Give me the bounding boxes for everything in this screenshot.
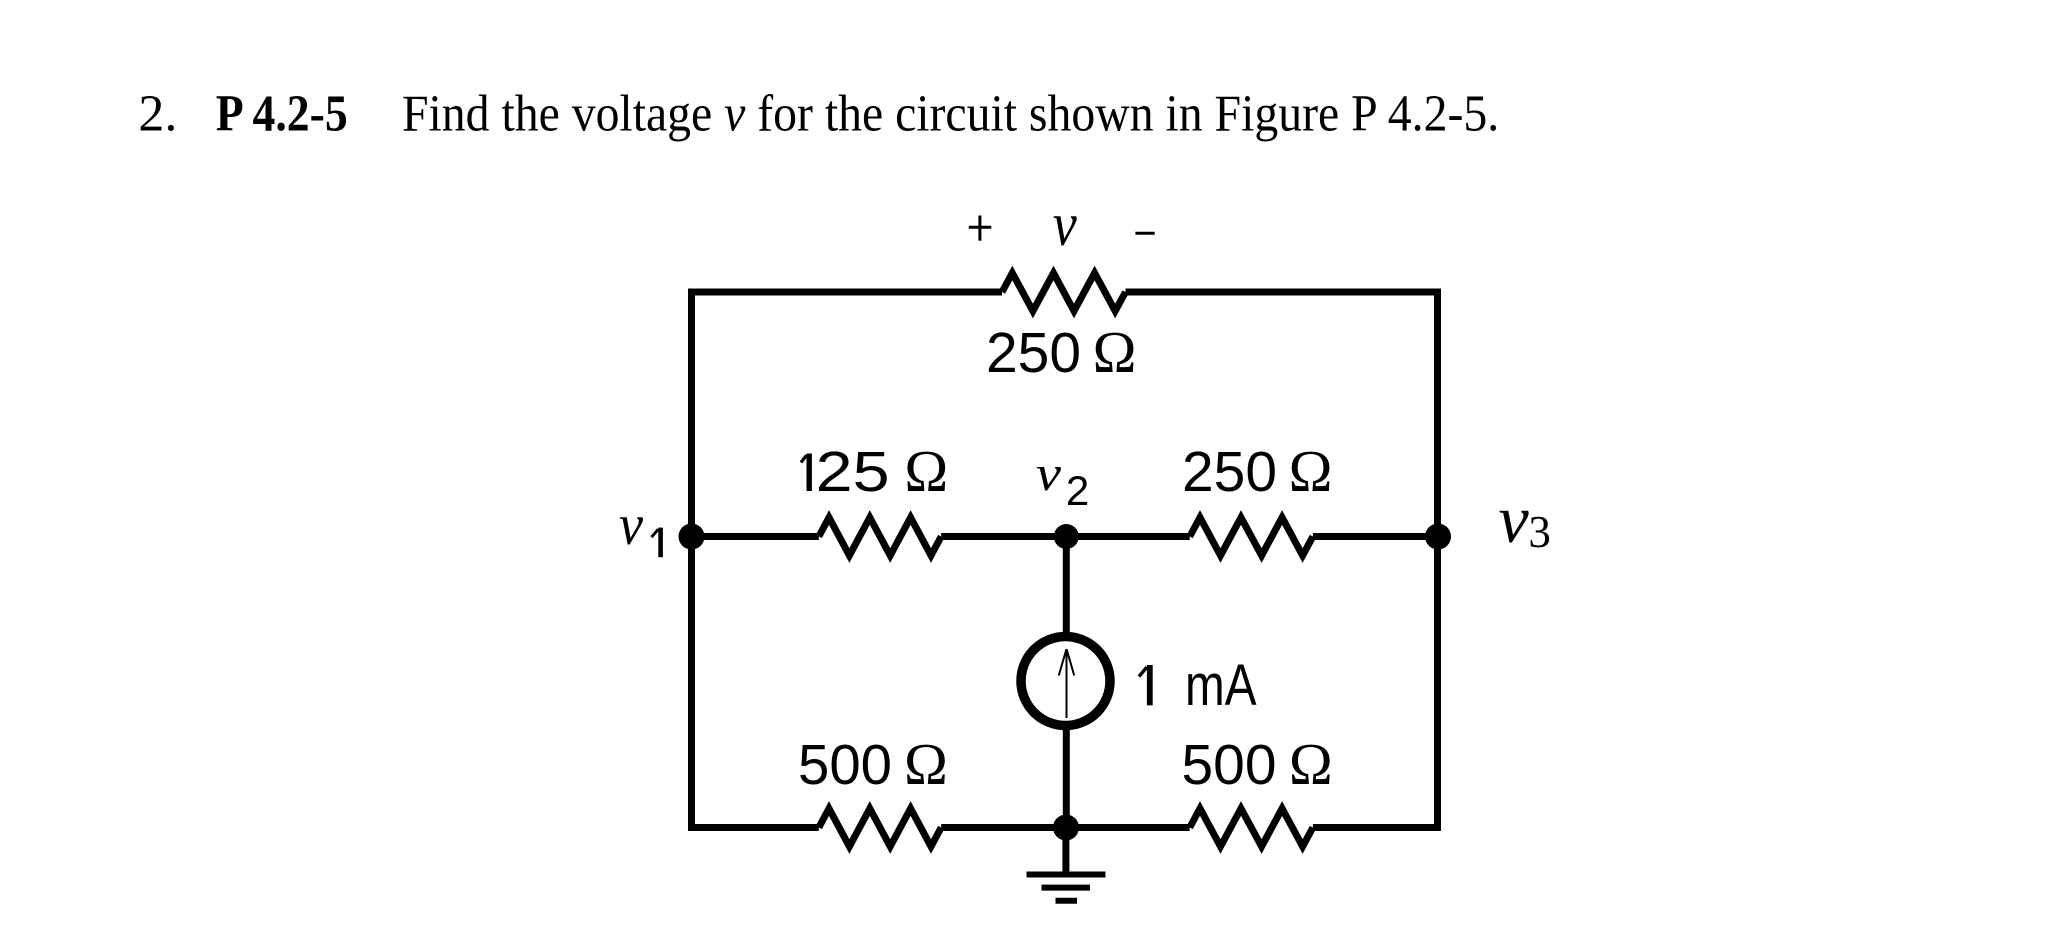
svg-text:3: 3 xyxy=(1528,507,1551,557)
node v1 junction dot xyxy=(679,524,705,550)
wire: ground stub xyxy=(1062,828,1069,875)
node v3 junction dot xyxy=(1425,524,1451,550)
svg-text:P 4.2-5: P 4.2-5 xyxy=(216,85,348,142)
wire: stub from current source down to bottom node xyxy=(1063,725,1070,828)
resistor 500 ohm (bottom right) xyxy=(1190,809,1313,847)
label: 125 ohm value xyxy=(801,454,809,492)
resistor 250 ohm (top) xyxy=(1002,273,1126,311)
label: - polarity sign xyxy=(1135,232,1154,235)
svg-text:Ω: Ω xyxy=(1093,319,1137,385)
svg-text:Ω: Ω xyxy=(1289,438,1333,504)
resistor 250 ohm (middle right) xyxy=(1190,518,1313,556)
svg-text:Ω: Ω xyxy=(1289,731,1333,797)
svg-text:25: 25 xyxy=(816,440,890,504)
resistor 125 ohm xyxy=(819,518,941,556)
node v2 junction dot xyxy=(1054,524,1079,549)
svg-text:mA: mA xyxy=(1185,653,1257,718)
svg-text:2.: 2. xyxy=(138,85,177,142)
wire: stub from v2 down to current source xyxy=(1063,537,1070,638)
svg-text:500: 500 xyxy=(798,733,892,797)
svg-text:250: 250 xyxy=(1182,440,1277,504)
svg-text:Ω: Ω xyxy=(904,731,948,797)
svg-text:Ω: Ω xyxy=(904,438,948,504)
current source I1 circle xyxy=(1021,637,1110,726)
svg-text:v: v xyxy=(1053,191,1077,259)
svg-text:Find the voltage v for the cir: Find the voltage v for the circuit shown… xyxy=(402,84,1499,141)
label: + polarity sign xyxy=(969,216,992,241)
wire: middle row, 125 ohm to 250 ohm through node v2 xyxy=(941,533,1189,540)
label: 1 mA source value xyxy=(1139,665,1150,705)
svg-text:250: 250 xyxy=(986,321,1081,385)
svg-text:v: v xyxy=(1499,481,1530,557)
wire: top-left + left side + bottom-left L-run xyxy=(692,292,1003,828)
wire: bottom row, 500 ohm left to 500 ohm right through ground node xyxy=(941,824,1189,831)
wire: middle row, 250 ohm to v3 xyxy=(1313,533,1438,540)
resistor 500 ohm (bottom left) xyxy=(819,809,941,847)
ground symbol xyxy=(1027,875,1106,901)
wire: top-right + right side + bottom-right L-run xyxy=(1126,292,1438,828)
bottom ground node junction dot xyxy=(1053,815,1079,841)
svg-text:500: 500 xyxy=(1182,733,1277,797)
svg-text:2: 2 xyxy=(1066,467,1089,514)
svg-text:v: v xyxy=(619,492,643,557)
current source arrow xyxy=(1059,649,1074,718)
svg-text:v: v xyxy=(1036,445,1062,501)
wire: middle row, v1 to 125 ohm xyxy=(692,533,819,540)
